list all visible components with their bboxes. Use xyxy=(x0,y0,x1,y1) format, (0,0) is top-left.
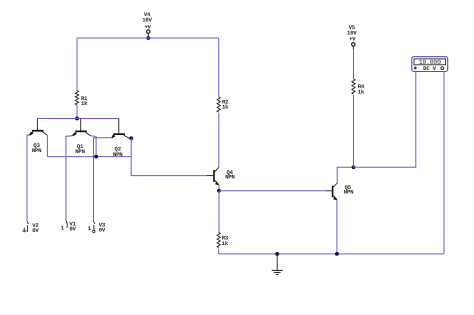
wire Q3 collector down xyxy=(46,135,48,156)
voltage source V3 xyxy=(88,221,106,233)
wire Q4 emitter down xyxy=(218,185,220,191)
wire V4 rail down to R1 xyxy=(76,38,78,91)
transistor Q1 xyxy=(72,119,91,156)
transistor Q5 xyxy=(326,183,353,200)
junction dot R4 output node xyxy=(352,165,356,169)
wire V5 to R4 xyxy=(353,49,355,79)
wire Q2 collector to Q4 base xyxy=(131,138,206,175)
svg-text:DC V: DC V xyxy=(423,65,436,72)
wire top rail down to R2 xyxy=(218,38,220,97)
svg-text:1k: 1k xyxy=(222,104,229,111)
svg-text:NPN: NPN xyxy=(32,147,41,154)
power source V4 xyxy=(142,11,152,38)
wire Q1 collector to rail xyxy=(91,136,97,157)
ground xyxy=(272,254,283,275)
junction dot Q5 emitter on rail xyxy=(335,252,339,256)
wire collector rail xyxy=(47,156,131,158)
wire R4 bottom to output node xyxy=(353,95,355,167)
wire Q2 emitter to V3 xyxy=(94,138,112,222)
svg-text:0V: 0V xyxy=(69,225,76,232)
junction dot Q2 collector xyxy=(129,136,133,140)
svg-text:NPN: NPN xyxy=(75,148,84,155)
svg-text:NPN: NPN xyxy=(344,189,353,196)
junction dot Q1 collector on rail xyxy=(94,155,98,159)
svg-text:1k: 1k xyxy=(358,89,365,96)
wire R2 bottom to Q4 collector xyxy=(218,113,220,167)
wire output node to meter left xyxy=(354,72,416,168)
wire Q1 emitter to V1 xyxy=(66,136,72,221)
wire Q5 collector up xyxy=(337,167,353,183)
wire Q3 emitter to V2 xyxy=(27,135,28,221)
wire Q4 emitter down to R3 xyxy=(218,191,220,233)
voltage source V1 xyxy=(61,220,77,232)
voltmeter U1 xyxy=(412,57,448,72)
svg-text:0V: 0V xyxy=(32,227,39,234)
resistor R3 xyxy=(217,233,229,248)
junction dot Q4 emitter xyxy=(217,189,221,193)
wire base rail xyxy=(37,118,118,120)
wire Q5 emitter down to rail xyxy=(336,200,338,254)
transistor Q2 xyxy=(111,119,129,158)
transistor Q3 xyxy=(28,119,47,155)
resistor R4 xyxy=(352,79,365,96)
wire Q4 emitter to Q5 base xyxy=(219,190,326,192)
svg-text:NPN: NPN xyxy=(225,174,234,181)
junction dot V4 tap xyxy=(146,36,150,40)
svg-text:1k: 1k xyxy=(81,100,88,107)
svg-text:1k: 1k xyxy=(222,240,229,247)
svg-text:+V: +V xyxy=(349,35,356,42)
wire meter right terminal to ground rail xyxy=(443,72,445,254)
junction dot R1 to base rail xyxy=(75,117,79,121)
voltage source V2 xyxy=(22,221,39,234)
resistor R1 xyxy=(75,91,88,107)
power source V5 xyxy=(347,24,357,49)
wire bottom rail xyxy=(219,253,444,255)
svg-text:0V: 0V xyxy=(99,226,106,233)
wire R3 bottom corner xyxy=(218,249,220,254)
svg-text:NPN: NPN xyxy=(113,151,122,158)
wire top rail xyxy=(77,37,219,39)
resistor R2 xyxy=(217,97,229,112)
junction dot ground tap xyxy=(275,252,279,256)
transistor Q4 xyxy=(207,167,235,185)
wire R1 bottom xyxy=(76,105,78,119)
svg-text:+V: +V xyxy=(144,23,151,30)
